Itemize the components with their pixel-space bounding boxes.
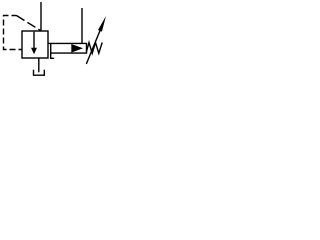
- wire pilot drain stub (down-right below pilot box): [51, 53, 55, 58]
- spring: [87, 43, 103, 54]
- valve body square V1: [22, 31, 48, 58]
- hydraulic pilot triangle (filled): [71, 44, 83, 53]
- wire pilot port line up: [81, 8, 83, 43]
- adjustment arrow across spring: [86, 16, 106, 64]
- wire inlet line top: [40, 2, 42, 31]
- pilot line dashed (left loop): [4, 16, 22, 50]
- flow path arrow (down) inside valve body: [31, 32, 37, 55]
- wire drain line below valve: [38, 58, 40, 72]
- pilot line dashed diagonal: [17, 16, 41, 31]
- tank symbol: [34, 70, 45, 76]
- pilot stage box: [48, 43, 87, 53]
